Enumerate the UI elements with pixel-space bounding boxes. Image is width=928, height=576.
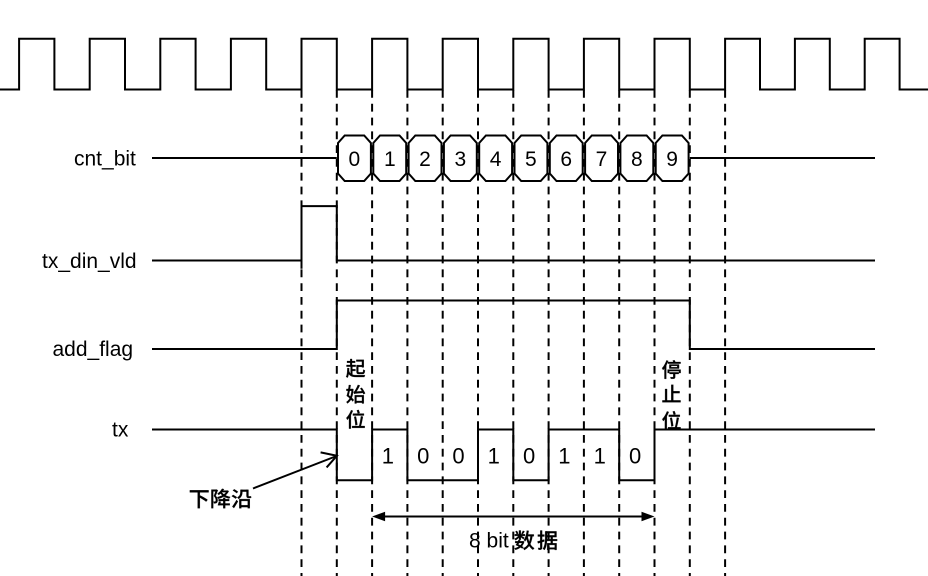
svg-text:8 bit: 8 bit	[469, 530, 509, 553]
cnt_bit value bubble 4	[479, 136, 512, 182]
svg-text:9: 9	[666, 148, 678, 171]
svg-text:5: 5	[525, 148, 537, 171]
cnt_bit value bubble 6	[550, 136, 583, 182]
svg-text:add_flag: add_flag	[53, 338, 134, 361]
right arrowhead	[642, 512, 655, 522]
dashed grid line 11 (clock edge x=654.5)	[654, 90, 656, 576]
svg-text:0: 0	[349, 148, 361, 171]
label 起始位 (start bit)	[346, 359, 365, 429]
svg-text:tx: tx	[112, 419, 129, 442]
cnt_bit value bubble 3	[444, 136, 477, 182]
cnt_bit value bubble 7	[585, 136, 618, 182]
svg-text:3: 3	[454, 148, 466, 171]
svg-text:0: 0	[417, 444, 429, 469]
label 停止位 (stop bit)	[662, 360, 681, 430]
svg-text:tx_din_vld: tx_din_vld	[42, 250, 137, 273]
svg-text:1: 1	[384, 148, 396, 171]
cnt_bit value bubble 8	[620, 136, 653, 182]
dashed grid line 5 (clock edge x=442.7)	[442, 90, 444, 576]
dashed grid line 4 (clock edge x=407.4)	[406, 90, 408, 576]
svg-text:0: 0	[629, 444, 641, 469]
tx_din_vld wire left	[152, 260, 302, 262]
tx_din_vld pulse and wire right	[302, 206, 876, 269]
dashed grid line 3 (clock edge x=372.1)	[371, 90, 373, 576]
dashed grid line 2 (clock edge x=336.8)	[336, 90, 338, 576]
svg-text:1: 1	[382, 444, 394, 469]
cnt_bit wire left	[152, 157, 337, 159]
clock waveform	[0, 39, 928, 90]
svg-text:6: 6	[560, 148, 572, 171]
cnt_bit value bubble 5	[515, 136, 548, 182]
svg-text:1: 1	[488, 444, 500, 469]
svg-text:0: 0	[523, 444, 535, 469]
svg-text:1: 1	[558, 444, 570, 469]
left arrowhead	[372, 512, 385, 522]
cnt_bit value bubble 0	[338, 136, 371, 182]
tx waveform	[152, 430, 875, 481]
cnt_bit value bubble 9	[656, 136, 689, 182]
dashed grid line 10 (clock edge x=619.2)	[618, 90, 620, 576]
svg-text:0: 0	[452, 444, 464, 469]
8-bit data span double arrow	[375, 516, 652, 518]
dashed grid line 1 (clock edge x=301.5)	[301, 90, 303, 576]
cnt_bit value bubble 2	[409, 136, 442, 182]
dashed grid line 7 (clock edge x=513.3)	[512, 90, 514, 576]
dashed grid line 12 (clock edge x=689.8)	[689, 90, 691, 576]
svg-text:4: 4	[490, 148, 502, 171]
svg-text:2: 2	[419, 148, 431, 171]
dashed grid line 8 (clock edge x=548.6)	[548, 90, 550, 576]
label 下降沿 (falling edge)	[190, 489, 251, 509]
svg-text:8: 8	[631, 148, 643, 171]
add_flag waveform	[152, 301, 875, 350]
cnt_bit wire right	[690, 157, 875, 159]
dashed grid line 13 (clock edge x=725.1)	[724, 90, 726, 576]
falling-edge pointer arrowhead	[321, 452, 337, 467]
dashed grid line 6 (clock edge x=478.0)	[477, 90, 479, 576]
dashed grid line 9 (clock edge x=583.9)	[583, 90, 585, 576]
label 数据 (data)	[514, 530, 557, 550]
falling-edge pointer arrow shaft	[253, 456, 337, 489]
svg-text:7: 7	[596, 148, 608, 171]
cnt_bit value bubble 1	[373, 136, 406, 182]
svg-text:1: 1	[594, 444, 606, 469]
svg-text:cnt_bit: cnt_bit	[74, 147, 136, 170]
